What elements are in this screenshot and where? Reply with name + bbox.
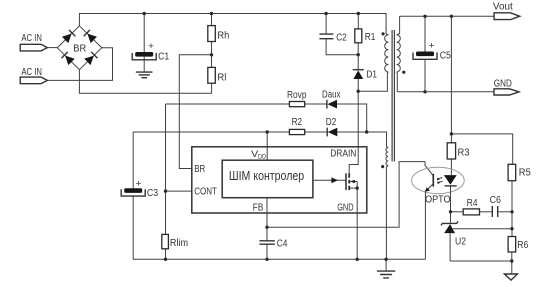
svg-text:R2: R2 xyxy=(292,117,303,128)
svg-text:U2: U2 xyxy=(455,237,466,248)
svg-text:C6: C6 xyxy=(490,195,502,206)
svg-text:GND: GND xyxy=(337,202,353,213)
svg-text:Rovp: Rovp xyxy=(287,90,307,101)
svg-text:C4: C4 xyxy=(277,239,288,250)
svg-text:C1: C1 xyxy=(158,52,170,63)
svg-text:Rl: Rl xyxy=(217,73,226,84)
svg-text:R6: R6 xyxy=(517,240,528,251)
svg-text:Rlim: Rlim xyxy=(170,238,188,249)
svg-text:AC IN: AC IN xyxy=(21,67,42,78)
svg-text:C3: C3 xyxy=(147,188,159,199)
svg-text:R4: R4 xyxy=(467,198,478,209)
svg-text:R3: R3 xyxy=(458,148,470,159)
svg-text:BR: BR xyxy=(194,164,205,175)
svg-text:D2: D2 xyxy=(326,117,337,128)
svg-text:Vout: Vout xyxy=(493,2,513,13)
svg-text:R1: R1 xyxy=(365,32,376,43)
svg-text:AC IN: AC IN xyxy=(21,33,42,44)
svg-text:ШІМ контролер: ШІМ контролер xyxy=(229,169,304,183)
svg-text:D1: D1 xyxy=(366,69,377,80)
svg-text:C2: C2 xyxy=(336,33,347,44)
svg-text:Rh: Rh xyxy=(217,30,229,41)
svg-text:C5: C5 xyxy=(440,51,452,62)
svg-text:DRAIN: DRAIN xyxy=(330,148,356,159)
svg-text:BR: BR xyxy=(73,44,86,55)
svg-text:+: + xyxy=(429,40,435,50)
svg-text:Daux: Daux xyxy=(322,90,341,101)
svg-text:+: + xyxy=(148,41,154,51)
svg-text:DD: DD xyxy=(258,154,266,161)
svg-text:R5: R5 xyxy=(519,168,531,179)
svg-text:OPTO: OPTO xyxy=(425,194,451,205)
svg-text:CONT: CONT xyxy=(194,187,217,198)
svg-text:GND: GND xyxy=(494,78,512,89)
svg-text:+: + xyxy=(136,179,142,189)
svg-text:FB: FB xyxy=(253,202,264,213)
